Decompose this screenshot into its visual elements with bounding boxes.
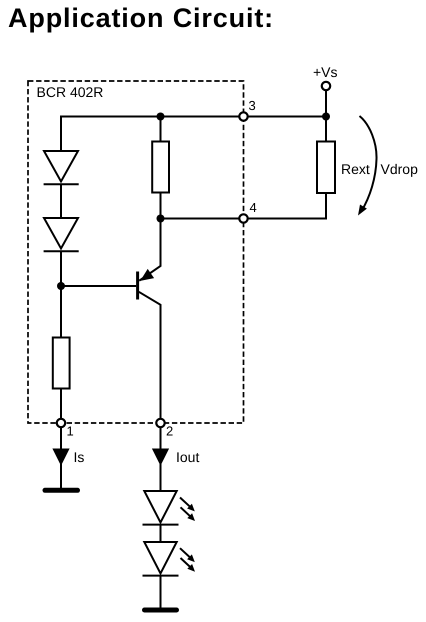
wire: left branch top (rail to diode D1) <box>60 116 62 152</box>
transistor Q1 base bar <box>136 272 139 300</box>
transistor Q1 collector lead <box>139 292 161 419</box>
junction dot: diode chain / Q1 base / R2 node <box>57 282 65 290</box>
junction dot: +Vs / pin-3 rail node <box>322 113 330 121</box>
LED D3 light arrow a <box>180 498 192 509</box>
wire: Rext bottom to pin-4 rail <box>325 193 327 220</box>
svg-text:3: 3 <box>249 98 256 113</box>
wire: +Vs junction down to Rext <box>325 117 327 142</box>
svg-text:Vdrop: Vdrop <box>381 161 419 177</box>
wire: top rail from left branch to +Vs junction (y=116.5) <box>61 116 326 118</box>
current arrow Iout <box>154 450 168 464</box>
transistor Q1 (PNP) emitter lead <box>139 219 160 281</box>
LED D4 light arrow a <box>180 548 192 559</box>
ground (below LED chain) <box>145 608 177 613</box>
svg-text:4: 4 <box>250 200 257 215</box>
current arrow Is <box>54 450 68 464</box>
wire: D3 cathode to D4 anode <box>160 525 162 542</box>
LED D3 light arrow b <box>181 507 192 518</box>
pin 4 terminal circle <box>239 214 247 222</box>
LED D4 light arrow b <box>181 558 192 569</box>
wire: D4 cathode to ground <box>160 576 162 608</box>
svg-text:+Vs: +Vs <box>313 64 338 80</box>
svg-text:Iout: Iout <box>176 449 199 465</box>
wire: pin 1 to Is arrow and ground <box>60 427 62 488</box>
transistor Q1 emitter arrow <box>140 269 154 281</box>
svg-text:2: 2 <box>166 424 173 439</box>
LED D4 <box>143 542 179 576</box>
title: Application Circuit <box>8 5 274 32</box>
svg-text:BCR 402R: BCR 402R <box>37 84 104 100</box>
wire: pin 2 to Iout arrow and LED chain <box>160 427 162 491</box>
resistor R1 (internal bias resistor) <box>152 142 169 193</box>
Vdrop arc arrow <box>360 116 377 211</box>
wire: pin-4 rail from node to Rext bottom (y=218.5) <box>161 218 327 220</box>
svg-text:Is: Is <box>74 449 85 465</box>
+Vs terminal circle <box>322 82 330 90</box>
wire: R1 to pin-4 node <box>160 193 162 219</box>
junction dot: top rail / R1 node <box>157 113 165 121</box>
ground (below Is) <box>45 488 78 493</box>
wire: D2 cathode down through base node to resistor R2 <box>60 251 62 337</box>
BCR 402R package outline (dashed box) <box>28 81 244 423</box>
wire: D1 cathode to D2 anode <box>60 184 62 218</box>
wire: +Vs terminal to junction <box>325 90 327 118</box>
resistor R2 (internal sense resistor) <box>53 338 70 389</box>
pin 1 terminal circle <box>57 419 65 427</box>
wire: top rail junction down to resistor R1 <box>160 117 162 142</box>
wire: R2 to pin 1 <box>60 389 62 420</box>
diode D1 <box>44 151 79 184</box>
wire: base node to Q1 base <box>61 285 136 287</box>
LED D3 <box>143 491 179 525</box>
pin 3 terminal circle <box>239 112 247 120</box>
pin 2 terminal circle <box>156 419 164 427</box>
junction dot: R1 / Q1 emitter / pin-4 node <box>157 215 165 223</box>
diode D2 <box>44 218 79 251</box>
svg-text:1: 1 <box>67 424 74 439</box>
resistor Rext <box>317 142 335 194</box>
svg-text:Rext: Rext <box>341 161 370 177</box>
